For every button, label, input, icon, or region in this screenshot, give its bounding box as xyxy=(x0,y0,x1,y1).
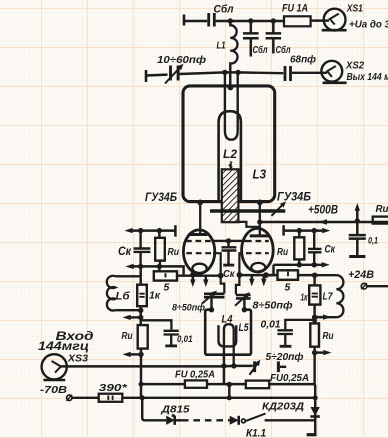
svg-text:8÷50пф: 8÷50пф xyxy=(253,300,293,312)
svg-text:L4: L4 xyxy=(222,314,233,326)
svg-text:Ск: Ск xyxy=(118,246,132,258)
svg-text:+24В: +24В xyxy=(348,269,374,281)
svg-text:8÷50пф: 8÷50пф xyxy=(172,303,206,314)
svg-text:L3: L3 xyxy=(253,167,267,182)
svg-text:Д815: Д815 xyxy=(160,405,190,416)
svg-text:L1: L1 xyxy=(217,40,226,52)
svg-text:0,1: 0,1 xyxy=(368,236,378,247)
svg-text:XS1: XS1 xyxy=(346,3,363,15)
svg-text:Сбл: Сбл xyxy=(276,44,292,56)
svg-text:Rи: Rи xyxy=(323,331,334,342)
svg-text:0,01: 0,01 xyxy=(177,334,193,345)
svg-text:К1.1: К1.1 xyxy=(246,428,266,438)
svg-text:ГУ34Б: ГУ34Б xyxy=(145,190,177,204)
svg-text:z: z xyxy=(228,159,233,168)
svg-text:ГУ34Б: ГУ34Б xyxy=(277,190,311,204)
svg-text:Rи: Rи xyxy=(168,246,180,258)
svg-text:1к: 1к xyxy=(301,293,309,304)
svg-text:68пф: 68пф xyxy=(290,54,316,66)
svg-text:Вых 144 м: Вых 144 м xyxy=(347,71,388,83)
svg-text:+Uа до 3к: +Uа до 3к xyxy=(349,19,388,31)
svg-text:Lб: Lб xyxy=(116,291,131,303)
svg-text:КД203Д: КД203Д xyxy=(262,402,304,413)
svg-text:FU 0,25А: FU 0,25А xyxy=(175,369,215,381)
svg-text:Rи: Rи xyxy=(277,246,288,258)
svg-text:Rи: Rи xyxy=(122,331,133,342)
svg-text:XS3: XS3 xyxy=(67,353,88,365)
svg-text:5: 5 xyxy=(285,282,291,294)
svg-text:390*: 390* xyxy=(99,382,128,394)
svg-text:1к: 1к xyxy=(149,290,161,302)
svg-text:10÷60пф: 10÷60пф xyxy=(157,54,206,66)
svg-text:L5: L5 xyxy=(239,322,250,334)
svg-text:Ск: Ск xyxy=(223,268,235,280)
svg-text:5÷20пф: 5÷20пф xyxy=(266,351,304,363)
svg-text:FU0,25А: FU0,25А xyxy=(270,372,309,384)
svg-text:Ск: Ск xyxy=(325,244,337,256)
svg-text:Сбл: Сбл xyxy=(214,3,234,15)
svg-text:0,01: 0,01 xyxy=(261,320,281,331)
svg-text:144мгц: 144мгц xyxy=(38,341,89,353)
svg-text:FU 1A: FU 1A xyxy=(282,3,308,15)
svg-text:-70В: -70В xyxy=(40,384,67,396)
svg-text:Rи: Rи xyxy=(376,203,388,215)
svg-text:+500В: +500В xyxy=(308,203,338,217)
svg-text:XS2: XS2 xyxy=(345,60,364,72)
svg-text:5: 5 xyxy=(164,282,170,294)
svg-text:Сбл: Сбл xyxy=(253,44,269,56)
svg-text:L7: L7 xyxy=(323,291,334,303)
